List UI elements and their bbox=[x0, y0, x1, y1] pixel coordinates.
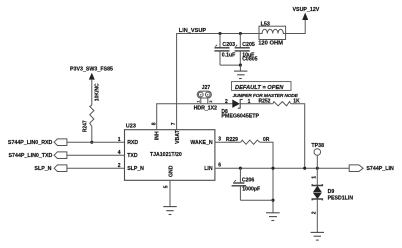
svg-text:0.1uF: 0.1uF bbox=[222, 53, 236, 59]
svg-text:LIN: LIN bbox=[204, 166, 213, 172]
connector J27 HDR_1X2 bbox=[194, 85, 217, 111]
power symbol P3V3_SW3_FS85 bbox=[70, 67, 113, 80]
node SLP_N bbox=[34, 165, 66, 172]
svg-text:P3V3_SW3_FS85: P3V3_SW3_FS85 bbox=[70, 67, 113, 73]
svg-text:GND: GND bbox=[168, 165, 174, 177]
junction R229 on LIN bbox=[271, 167, 274, 170]
test point TP38 bbox=[311, 143, 324, 168]
wire LIN_VSUP rail bbox=[177, 34, 259, 130]
junction C206 ground leg bbox=[271, 199, 274, 202]
svg-text:PESD1LIN: PESD1LIN bbox=[328, 196, 354, 202]
svg-text:R252: R252 bbox=[259, 99, 271, 105]
ground (D9) bbox=[311, 232, 324, 240]
ground (U23) bbox=[163, 207, 176, 215]
svg-text:C0805: C0805 bbox=[242, 57, 257, 63]
resistor R252 1K bbox=[259, 99, 301, 106]
pin 6 LIN bbox=[204, 162, 221, 172]
wire RXD bbox=[67, 141, 125, 143]
svg-text:U23: U23 bbox=[126, 123, 136, 129]
svg-text:3: 3 bbox=[218, 136, 221, 142]
wire SLP_N bbox=[67, 167, 125, 169]
svg-text:C206: C206 bbox=[242, 178, 255, 184]
junction R247 on RXD wire bbox=[90, 141, 93, 144]
wire U23 GND pin bbox=[169, 180, 171, 206]
svg-text:2: 2 bbox=[311, 211, 317, 214]
svg-text:C203: C203 bbox=[222, 42, 235, 48]
svg-text:RXD: RXD bbox=[127, 140, 138, 146]
svg-text:R247: R247 bbox=[83, 120, 89, 132]
wire C206 bottom to ground leg bbox=[240, 199, 273, 201]
junction C206 on LIN bbox=[239, 167, 242, 170]
wire VSUP_12V to L53 bbox=[286, 20, 306, 34]
svg-text:VSUP_12V: VSUP_12V bbox=[293, 7, 320, 13]
diode D8 PMEG6045ETP (schottky) pin 2 anode / pin 1 cathode bbox=[221, 99, 259, 119]
wire WAKE_N to R229 bbox=[215, 141, 241, 143]
svg-text:VBAT: VBAT bbox=[175, 129, 181, 144]
pin 2 SLP_N bbox=[118, 163, 144, 172]
capacitor C203 0.1uF bbox=[214, 34, 235, 66]
wire P3V3 to R247 bbox=[91, 80, 93, 106]
svg-text:HDR_1X2: HDR_1X2 bbox=[194, 106, 217, 112]
node S744P_LIN0_RXD bbox=[8, 139, 67, 146]
wire TXD bbox=[67, 154, 125, 156]
node S744P_LIN0_TXD bbox=[9, 152, 67, 159]
capacitor C205 10uF C0805 bbox=[235, 34, 258, 66]
pin 5 GND bbox=[164, 165, 175, 188]
svg-text:5: 5 bbox=[164, 185, 170, 188]
wire LIN net bbox=[215, 167, 349, 169]
svg-text:TP38: TP38 bbox=[311, 143, 324, 149]
svg-text:1: 1 bbox=[118, 137, 121, 143]
wire C203 bottom to C205 bottom bbox=[220, 64, 240, 66]
svg-text:120 OHM: 120 OHM bbox=[258, 40, 283, 46]
junction at caps ground bbox=[239, 64, 242, 67]
note box DEFAULT = OPEN / JUMPER FOR MASTER NODE bbox=[232, 82, 299, 100]
ground (C206 / R229 leg) bbox=[266, 213, 280, 221]
pin 8 INH bbox=[151, 122, 160, 140]
svg-text:2: 2 bbox=[225, 99, 228, 105]
svg-text:S744P_LIN: S744P_LIN bbox=[366, 166, 394, 172]
svg-text:C205: C205 bbox=[242, 42, 255, 48]
ground (decoupling caps) bbox=[234, 65, 247, 78]
svg-text:S744P_LIN0_TXD: S744P_LIN0_TXD bbox=[9, 153, 53, 159]
svg-text:TJA1021T/20: TJA1021T/20 bbox=[150, 152, 182, 158]
TVS diode D9 PESD1LIN pin 1 top / pin 2 bottom bbox=[311, 168, 353, 232]
wire R247 to RXD net bbox=[91, 126, 93, 142]
svg-text:4: 4 bbox=[118, 150, 121, 156]
IC U23 TJA1021T/20 bbox=[125, 123, 215, 180]
svg-text:1: 1 bbox=[311, 176, 317, 179]
power symbol VSUP_12V bbox=[293, 7, 320, 20]
svg-text:7: 7 bbox=[171, 122, 177, 125]
pin 1 RXD bbox=[118, 137, 139, 146]
pin 7 VBAT bbox=[171, 122, 181, 144]
svg-text:D9: D9 bbox=[328, 189, 335, 195]
junction R252 on LIN bbox=[303, 167, 306, 170]
svg-text:1: 1 bbox=[197, 101, 201, 103]
svg-text:2: 2 bbox=[209, 101, 213, 103]
svg-text:PMEG6045ETP: PMEG6045ETP bbox=[221, 113, 259, 119]
junction at C205 tap bbox=[239, 32, 242, 35]
svg-text:2: 2 bbox=[118, 163, 121, 169]
node S744P_LIN bbox=[349, 165, 394, 172]
wire D8 cathode to R252 bbox=[240, 103, 273, 105]
svg-text:6: 6 bbox=[218, 162, 221, 168]
svg-text:SLP_N: SLP_N bbox=[34, 166, 51, 172]
junction at C203 tap bbox=[218, 32, 221, 35]
resistor R247 10K/NC bbox=[83, 83, 101, 132]
junction TP38/D9 on LIN bbox=[316, 167, 319, 170]
svg-text:S744P_LIN0_RXD: S744P_LIN0_RXD bbox=[8, 140, 53, 146]
capacitor C206 1000pF bbox=[232, 168, 261, 200]
svg-text:1000pF: 1000pF bbox=[242, 186, 260, 192]
svg-text:DEFAULT = OPEN: DEFAULT = OPEN bbox=[235, 85, 284, 91]
resistor R229 0R bbox=[226, 137, 270, 144]
svg-text:TXD: TXD bbox=[127, 153, 138, 159]
svg-text:WAKE_N: WAKE_N bbox=[190, 140, 212, 146]
pin 4 TXD bbox=[118, 150, 138, 159]
wire INH to J27 / D8 bbox=[157, 104, 234, 130]
wire R252 to LIN bbox=[291, 104, 305, 169]
svg-text:INH: INH bbox=[154, 131, 160, 140]
inductor L53 120 OHM bbox=[258, 22, 285, 47]
wire R229 down to LIN and ground bbox=[260, 142, 273, 213]
svg-text:SLP_N: SLP_N bbox=[127, 166, 144, 172]
svg-text:J27: J27 bbox=[202, 85, 211, 91]
pin 3 WAKE_N bbox=[190, 136, 221, 146]
svg-text:10K/NC: 10K/NC bbox=[95, 83, 101, 101]
